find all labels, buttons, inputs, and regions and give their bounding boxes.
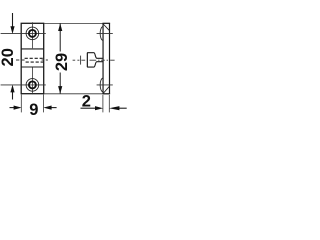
dim 9 right arrow — [49, 107, 57, 109]
dim 29 bottom arrow — [58, 86, 62, 94]
dim 2 left arrow — [81, 107, 97, 109]
dim 2 left extension line — [102, 95, 104, 112]
horizontal centre line of knob, front view (dash-dot segments) — [16, 59, 48, 61]
dim 20 bottom arrow (outside, pointing up) — [12, 91, 14, 100]
dim 2 right extension line — [108, 95, 110, 112]
dim 9 left extension line — [20, 95, 22, 113]
hidden edge dashed lower — [26, 61, 44, 63]
side view top edge — [102, 22, 110, 24]
top hole countersink outer circle — [26, 27, 39, 40]
knob axis centre line (dash-dot segments) — [73, 59, 115, 61]
bottom hole centre line horizontal — [1, 84, 46, 86]
bottom extension line connecting views — [44, 93, 110, 95]
dim 29 line lower segment — [59, 73, 61, 94]
bottom hole centre line vertical — [31, 67, 33, 94]
side view left edge — [102, 23, 104, 94]
svg-text:9: 9 — [29, 101, 38, 119]
knob bottom profile — [87, 62, 103, 67]
knob head face — [86, 53, 88, 67]
svg-text:2: 2 — [82, 93, 91, 111]
bottom hole inner bore — [29, 81, 36, 88]
top hole centre line vertical — [31, 22, 33, 48]
side view right edge — [109, 23, 111, 94]
side view bottom corner diagonal — [103, 87, 109, 94]
dim 9 left arrow — [10, 107, 15, 109]
side view top hole centre line — [97, 32, 113, 34]
dim 2 right arrow — [115, 107, 127, 109]
svg-text:20: 20 — [0, 48, 17, 66]
side view bottom edge — [102, 93, 110, 95]
top hole inner bore — [29, 30, 36, 37]
side view bottom hole centre line — [97, 84, 113, 86]
svg-text:29: 29 — [53, 53, 71, 71]
hidden edge dashed upper — [25, 57, 44, 59]
side view top hole countersink arc — [100, 27, 103, 41]
axis cross mark — [80, 56, 82, 65]
bottom hole countersink outer circle — [26, 79, 39, 92]
raised band top edge — [21, 48, 44, 50]
raised band bottom edge — [21, 66, 44, 68]
dim 29 top arrow — [58, 23, 62, 31]
front view plate outline — [21, 23, 44, 93]
dim 20 top arrow (outside, pointing down) — [12, 13, 14, 28]
top extension line connecting views — [44, 22, 110, 24]
dim 29 line upper segment — [59, 23, 61, 51]
side view top corner diagonal — [103, 24, 110, 31]
knob top profile — [87, 53, 103, 59]
dim 9 right extension line — [43, 95, 45, 113]
top hole centre line horizontal — [1, 32, 46, 34]
side view bottom hole countersink arc — [100, 78, 103, 92]
